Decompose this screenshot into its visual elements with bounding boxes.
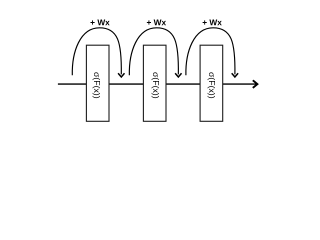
- skip connection arc 2: [129, 28, 178, 76]
- arrowhead skip 1: [118, 73, 124, 77]
- svg-text:+ Wx: + Wx: [90, 17, 110, 27]
- skip connection arc 3: [186, 28, 235, 76]
- wire main signal line: [58, 83, 256, 85]
- arrowhead main line output: [253, 80, 258, 88]
- svg-text:σ(F(x)): σ(F(x)): [151, 72, 161, 99]
- arrowhead skip 2: [175, 73, 181, 77]
- svg-text:+ Wx: + Wx: [146, 17, 166, 27]
- block F2: [143, 45, 166, 121]
- skip connection arc 1: [72, 28, 121, 76]
- svg-text:σ(F(x)): σ(F(x)): [207, 72, 217, 99]
- svg-text:σ(F(x)): σ(F(x)): [92, 72, 102, 99]
- svg-text:+ Wx: + Wx: [202, 17, 222, 27]
- block F3: [200, 45, 223, 121]
- arrowhead skip 3: [232, 73, 238, 77]
- block F1: [86, 45, 109, 121]
